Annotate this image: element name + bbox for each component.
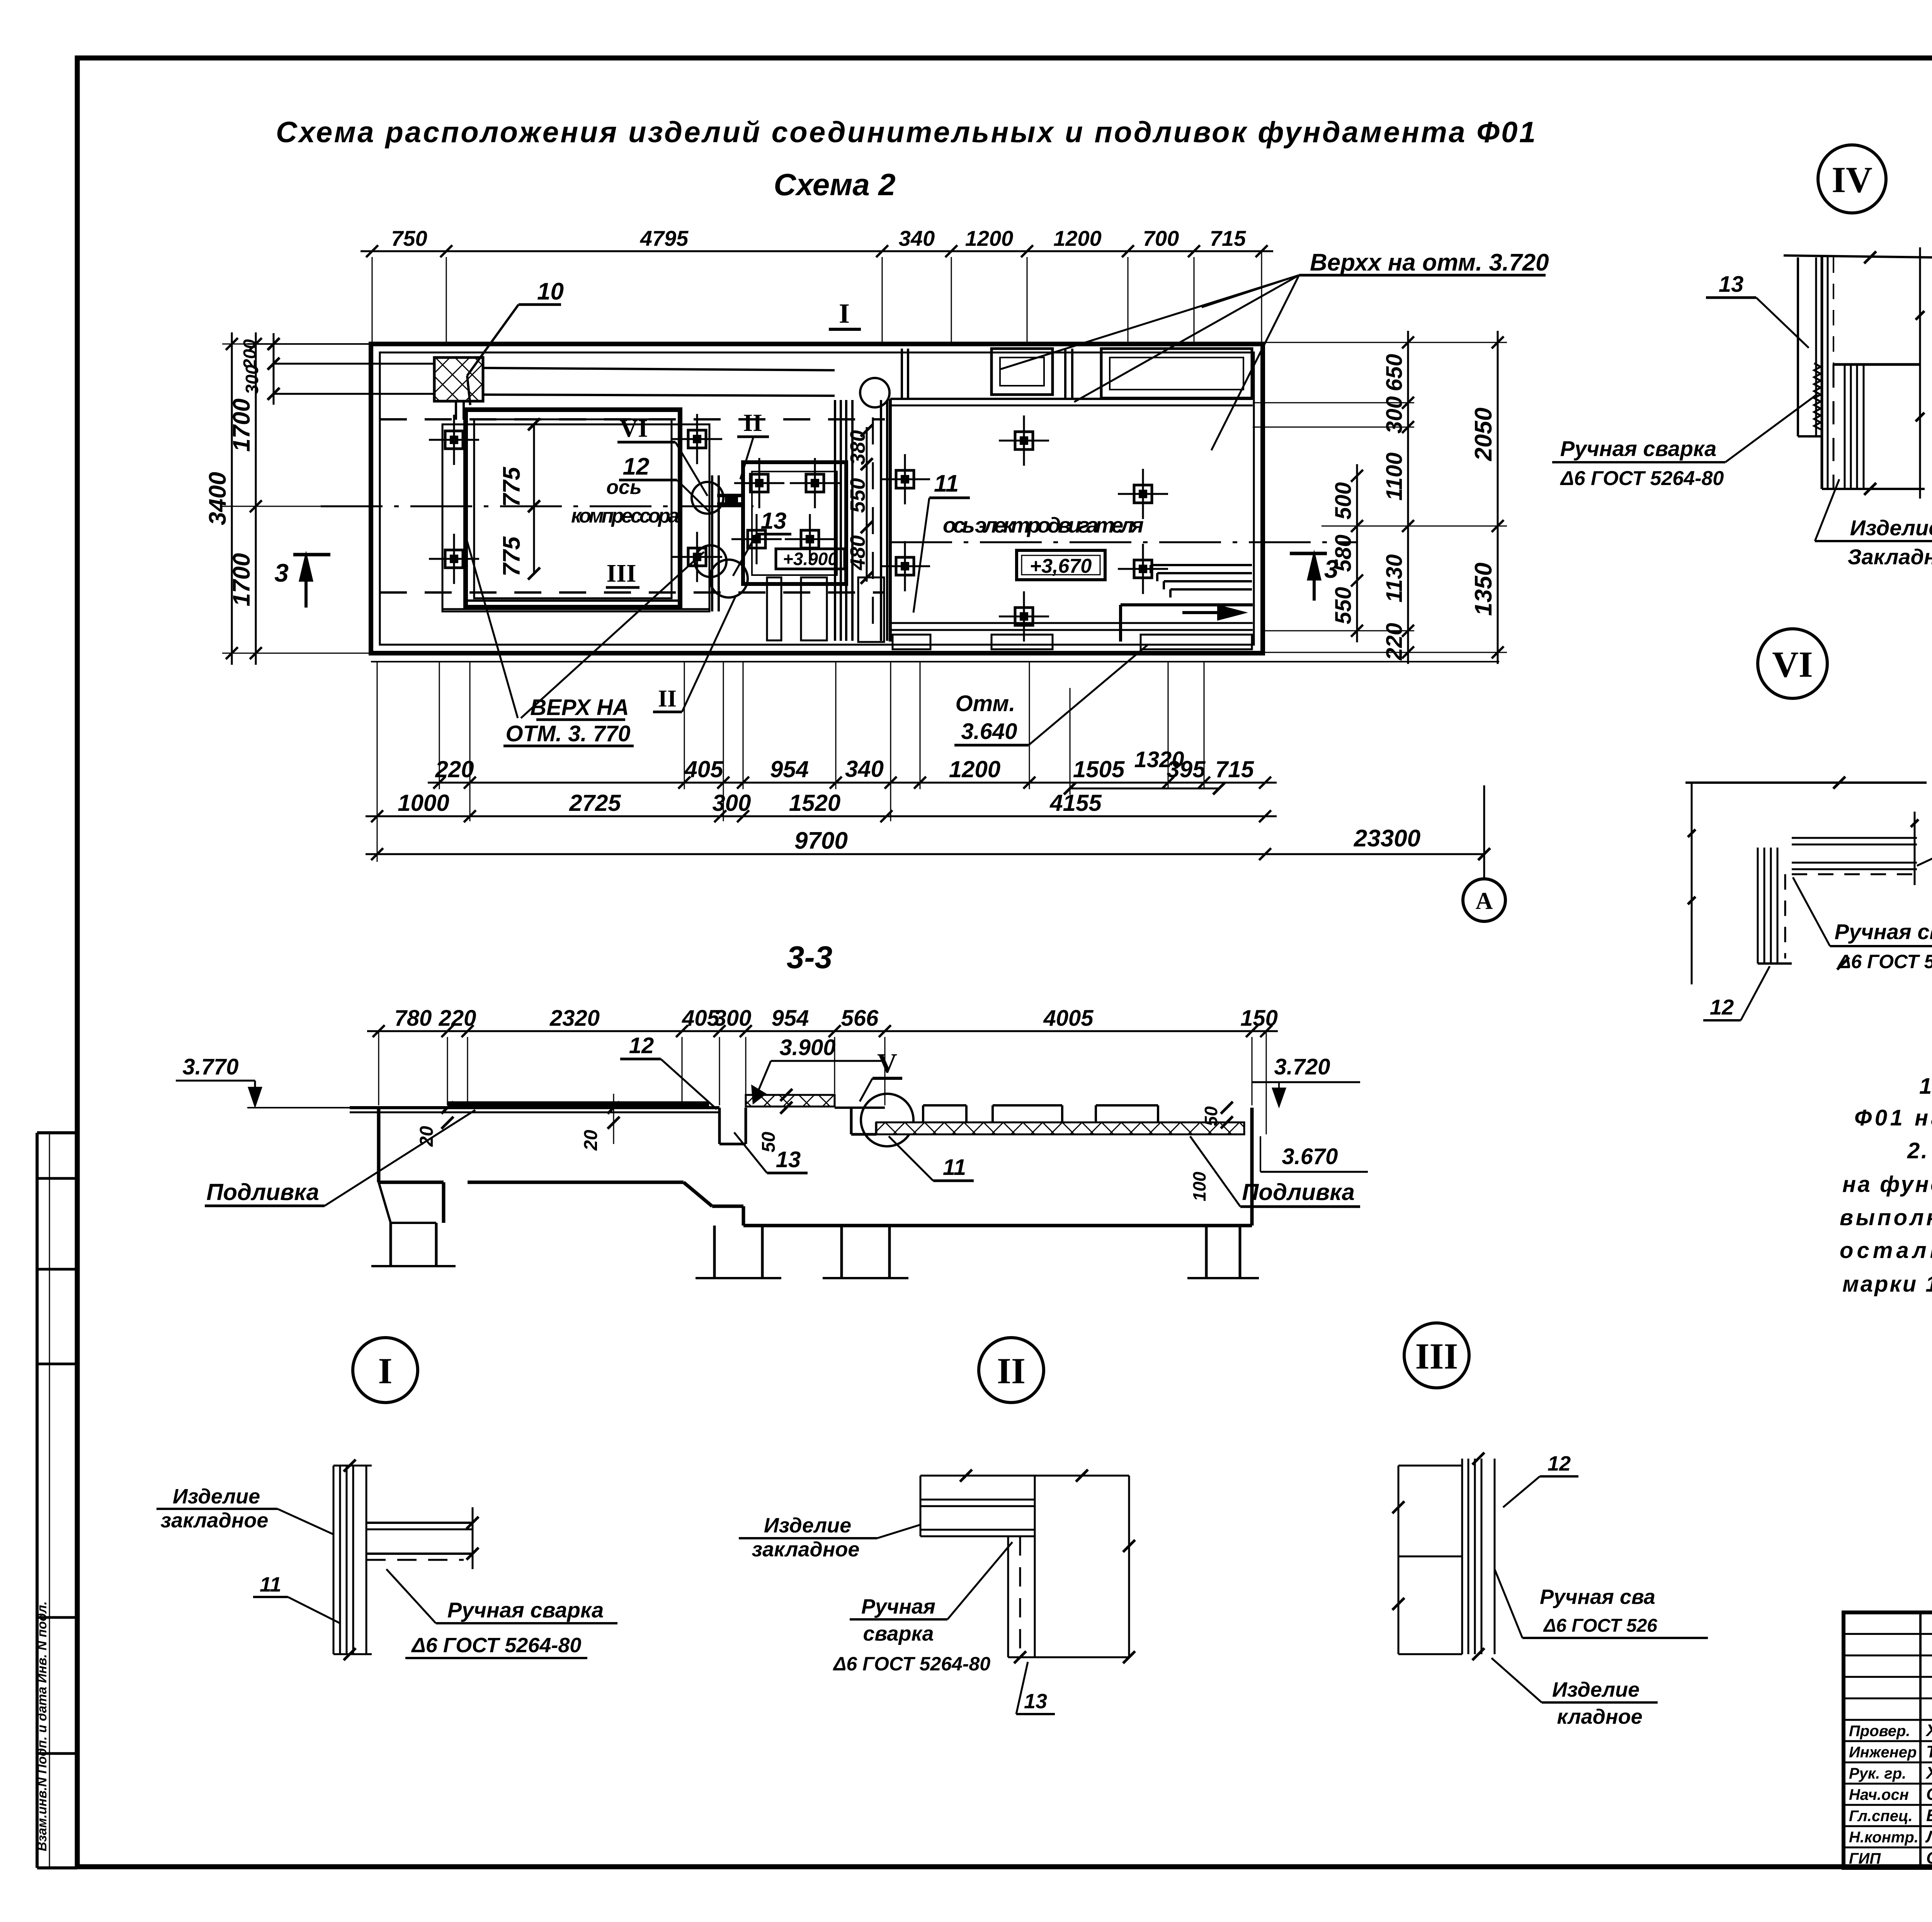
svg-text:VI: VI (1772, 644, 1813, 685)
svg-text:Взам.инв.N Подп. и дата Инв: Взам.инв.N Подп. и дата Инв. N подл. (35, 1601, 49, 1851)
svg-text:715: 715 (1215, 756, 1255, 782)
raised blocks on band (923, 1104, 966, 1107)
section mark 3 right (1290, 552, 1327, 555)
svg-text:780: 780 (395, 1006, 432, 1031)
svg-text:Ручная сварка: Ручная сварка (1835, 919, 1932, 944)
svg-text:Боярченко: Боярченко (1926, 1806, 1932, 1825)
svg-text:150: 150 (1240, 1006, 1278, 1031)
svg-text:Инженер: Инженер (1849, 1744, 1917, 1761)
bottom band with slots (890, 622, 1253, 624)
svg-text:III: III (1415, 1336, 1458, 1377)
svg-text:Верхх на отм. 3.720: Верхх на отм. 3.720 (1310, 249, 1549, 276)
svg-text:300: 300 (714, 1006, 752, 1031)
svg-text:1505: 1505 (1073, 756, 1125, 782)
svg-text:1000: 1000 (398, 790, 449, 816)
svg-text:4795: 4795 (640, 226, 689, 250)
svg-text:Изделие: Изделие (1552, 1678, 1639, 1701)
vertical channel between parts (834, 400, 836, 641)
svg-text:550: 550 (1331, 587, 1356, 625)
svg-text:4005: 4005 (1043, 1006, 1094, 1031)
right pier (1205, 1226, 1208, 1278)
svg-text:Δ6 ГОСТ 5264-80: Δ6 ГОСТ 5264-80 (411, 1634, 582, 1657)
svg-text:Ханин: Ханин (1925, 1764, 1932, 1782)
svg-text:220: 220 (439, 1006, 476, 1031)
svg-text:Δ6 ГОСТ 5264-80: Δ6 ГОСТ 5264-80 (1560, 467, 1724, 490)
svg-text:220: 220 (435, 756, 474, 782)
svg-text:Изделие: Изделие (1850, 516, 1932, 540)
pedestal bolts (734, 458, 784, 508)
svg-text:700: 700 (1143, 226, 1179, 250)
svg-text:13: 13 (761, 508, 787, 534)
svg-text:закладное: закладное (752, 1538, 860, 1561)
svg-text:Подливка: Подливка (206, 1179, 319, 1205)
svg-text:3.670: 3.670 (1282, 1144, 1338, 1169)
svg-text:на фундаменте Ф01. в преде: на фундаменте Ф01. в пределах электродви… (1842, 1172, 1932, 1197)
svg-text:1100: 1100 (1382, 453, 1407, 501)
svg-text:3: 3 (1324, 555, 1338, 583)
svg-text:220: 220 (1382, 623, 1407, 661)
9700 dim (366, 853, 1277, 855)
svg-text:марки 150.: марки 150. (1842, 1272, 1932, 1297)
svg-text:1200: 1200 (965, 226, 1014, 250)
svg-text:340: 340 (899, 226, 935, 250)
svg-text:Ханин: Ханин (1925, 1721, 1932, 1740)
notch at 566 end (850, 1108, 853, 1134)
svg-text:300: 300 (242, 364, 262, 394)
svg-text:1350: 1350 (1470, 563, 1497, 616)
svg-text:3: 3 (274, 558, 289, 587)
svg-text:12: 12 (629, 1033, 654, 1058)
svg-text:3400: 3400 (204, 472, 231, 525)
svg-text:ось электродвигателя: ось электродвигателя (943, 513, 1144, 537)
svg-text:12: 12 (1548, 1452, 1571, 1475)
svg-text:10: 10 (537, 278, 564, 305)
svg-text:566: 566 (841, 1006, 879, 1031)
detail IV drawing (1784, 255, 1932, 257)
svg-text:Схема расположения изделий сое: Схема расположения изделий соединительны… (276, 116, 1536, 149)
svg-text:Ручная сварка: Ручная сварка (1560, 436, 1716, 461)
svg-text:715: 715 (1210, 226, 1246, 250)
svg-text:Осташевск: Осташевск (1926, 1849, 1932, 1868)
svg-text:480: 480 (846, 535, 869, 570)
svg-text:2725: 2725 (569, 790, 621, 816)
pedestal block middle (743, 462, 846, 584)
svg-text:Рук. гр.: Рук. гр. (1849, 1765, 1906, 1782)
svg-text:775: 775 (498, 466, 525, 507)
motor area top band and openings (889, 399, 892, 642)
svg-text:ОТМ. 3. 770: ОТМ. 3. 770 (505, 721, 630, 746)
svg-text:Изделие: Изделие (173, 1485, 260, 1508)
svg-text:Лученко: Лученко (1925, 1827, 1932, 1846)
svg-text:I: I (839, 298, 850, 329)
23300 dim with node A (1265, 853, 1484, 855)
stair bracket right (1151, 564, 1252, 566)
svg-text:3.770: 3.770 (182, 1054, 238, 1079)
svg-text:12: 12 (1710, 995, 1734, 1019)
svg-text:20: 20 (581, 1130, 601, 1151)
svg-text:I: I (378, 1350, 393, 1391)
svg-text:1320: 1320 (1134, 747, 1184, 772)
svg-text:+3,670: +3,670 (1030, 555, 1092, 577)
svg-text:11: 11 (934, 470, 959, 497)
svg-text:Схема 2: Схема 2 (774, 167, 895, 202)
left pier (389, 1223, 392, 1266)
svg-text:II: II (658, 686, 677, 712)
svg-text:12: 12 (623, 453, 650, 480)
V detail circle on section (861, 1094, 913, 1146)
svg-text:11: 11 (943, 1155, 966, 1180)
svg-text:1200: 1200 (1053, 226, 1102, 250)
svg-text:13: 13 (776, 1147, 801, 1172)
slots below pedestal (767, 577, 781, 640)
svg-text:23300: 23300 (1354, 825, 1420, 852)
svg-text:1520: 1520 (789, 790, 840, 816)
dashed axis lines upper/lower (380, 418, 885, 420)
svg-text:V: V (877, 1048, 897, 1079)
detail I bottom left (333, 1466, 335, 1654)
arrow right (1182, 611, 1238, 614)
svg-text:IV: IV (1832, 159, 1872, 200)
svg-text:4155: 4155 (1049, 790, 1102, 816)
middle channel verticals and detail circles (711, 475, 713, 611)
svg-text:340: 340 (845, 756, 884, 782)
right dimension chains (1356, 464, 1358, 642)
svg-text:9700: 9700 (794, 827, 848, 854)
svg-text:сварка: сварка (863, 1622, 934, 1645)
svg-text:50: 50 (1201, 1106, 1221, 1126)
svg-text:954: 954 (772, 1006, 809, 1031)
dim 775/775 inside block (533, 424, 535, 574)
svg-text:Изделие: Изделие (764, 1514, 851, 1537)
left attachment strip table (36, 1133, 39, 1868)
compressor axis line (321, 506, 753, 507)
compressor block (double contour) (466, 410, 680, 607)
svg-text:кладное: кладное (1557, 1705, 1642, 1728)
svg-text:750: 750 (391, 226, 427, 250)
svg-text:Ручная сва: Ручная сва (1540, 1585, 1655, 1609)
rotated dims 480 550 380 (866, 427, 868, 582)
detail III bottom right (1398, 1466, 1400, 1654)
weld zigzag (1814, 363, 1821, 429)
svg-text:II: II (743, 409, 762, 436)
svg-text:Гл.спец.: Гл.спец. (1849, 1808, 1913, 1825)
svg-text:III: III (606, 559, 636, 587)
compressor plinth (442, 424, 709, 611)
svg-text:Δ6 ГОСТ 5264-80: Δ6 ГОСТ 5264-80 (833, 1653, 991, 1675)
svg-text:300: 300 (712, 790, 751, 816)
section top dim chain (367, 1030, 1278, 1032)
bottom right step (1119, 605, 1122, 642)
svg-text:Нач.осн: Нач.осн (1849, 1786, 1909, 1803)
section detail circles I II III (353, 1338, 418, 1403)
left dimension chains (273, 333, 275, 405)
motor bolts (880, 454, 930, 504)
svg-text:Ф01 на отм. 3.800 перекр: Ф01 на отм. 3.800 перекрыть рифленой ста… (1854, 1105, 1932, 1130)
svg-text:ГИП: ГИП (1849, 1850, 1881, 1867)
section mark 3 left (293, 553, 330, 557)
svg-text:954: 954 (770, 756, 809, 782)
svg-text:3.900: 3.900 (779, 1035, 835, 1060)
svg-text:2320: 2320 (549, 1006, 600, 1031)
svg-text:ВЕРХ НА: ВЕРХ НА (530, 695, 629, 720)
motor axis (890, 541, 1357, 543)
svg-text:550: 550 (846, 478, 869, 513)
svg-text:Ручная сварка: Ручная сварка (447, 1598, 604, 1622)
channel notch 300 (718, 1108, 721, 1144)
detail VI drawing (1685, 781, 1927, 784)
svg-text:II: II (997, 1350, 1026, 1391)
svg-text:650: 650 (1382, 354, 1407, 392)
detail II bottom middle (920, 1475, 1129, 1477)
svg-text:Δ6 ГОСТ 526: Δ6 ГОСТ 526 (1543, 1616, 1657, 1636)
svg-text:3.640: 3.640 (961, 719, 1017, 744)
anchor bolts compressor (429, 415, 479, 465)
plan outer contour (371, 344, 1263, 653)
svg-text:А: А (1476, 888, 1493, 914)
long podliv crosshatch band (876, 1122, 1244, 1134)
svg-text:закладное: закладное (161, 1509, 269, 1532)
svg-text:Провер.: Провер. (1849, 1723, 1910, 1740)
extension line under plan (371, 661, 1499, 662)
svg-text:Саакьянц: Саакьянц (1926, 1785, 1932, 1804)
svg-text:Отм.: Отм. (956, 691, 1015, 716)
svg-text:1. Все каналы в пределах: 1. Все каналы в пределах фундамента (1919, 1074, 1932, 1099)
section foundation profile (350, 1106, 719, 1109)
svg-text:VI: VI (619, 414, 648, 443)
main title block (1844, 1612, 1932, 1868)
svg-text:13: 13 (1024, 1690, 1047, 1713)
+3.900 boxed level (776, 549, 845, 569)
section piers middle (713, 1226, 716, 1278)
svg-text:775: 775 (498, 536, 525, 577)
svg-text:11: 11 (260, 1573, 281, 1596)
detail VI circle (1758, 629, 1827, 698)
detail IV circle (1818, 145, 1886, 213)
signature table (1919, 1612, 1922, 1868)
bottom dimension chains (428, 782, 1277, 784)
svg-text:500: 500 (1331, 482, 1356, 520)
svg-text:300: 300 (1382, 396, 1407, 434)
svg-text:1200: 1200 (949, 756, 1000, 782)
+3,670 boxed level (1017, 550, 1105, 580)
svg-text:405: 405 (684, 756, 724, 782)
svg-text:2050: 2050 (1470, 408, 1497, 461)
3.900 pad with hatch (746, 1095, 835, 1107)
svg-text:Ручная: Ручная (861, 1595, 935, 1618)
svg-text:Закладное: Закладное (1848, 545, 1932, 569)
svg-text:380: 380 (846, 430, 869, 465)
svg-text:компрессора: компрессора (571, 505, 679, 527)
svg-text:Толмачёва: Толмачёва (1926, 1742, 1932, 1761)
svg-text:3-3: 3-3 (787, 940, 833, 975)
main body (468, 1181, 684, 1184)
svg-text:1130: 1130 (1382, 554, 1407, 603)
hatched patch element 10 (434, 358, 483, 401)
svg-text:3.720: 3.720 (1274, 1054, 1330, 1079)
top dimension chain (361, 250, 1273, 252)
svg-text:100: 100 (1189, 1171, 1209, 1201)
svg-text:13: 13 (1719, 272, 1744, 297)
svg-text:Подливка: Подливка (1242, 1179, 1355, 1205)
svg-text:Δ6 ГОСТ 5264-80: Δ6 ГОСТ 5264-80 (1837, 951, 1932, 972)
svg-text:Н.контр.: Н.контр. (1849, 1829, 1918, 1846)
